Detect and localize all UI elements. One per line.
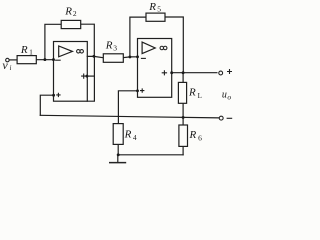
svg-text:4: 4 bbox=[133, 133, 137, 142]
svg-text:R: R bbox=[189, 129, 197, 141]
svg-text:6: 6 bbox=[198, 134, 202, 143]
svg-text:i: i bbox=[10, 64, 12, 72]
svg-text:2: 2 bbox=[73, 9, 77, 18]
svg-text:R: R bbox=[124, 129, 132, 141]
svg-text:R: R bbox=[148, 1, 156, 13]
svg-text:R: R bbox=[64, 6, 72, 18]
svg-text:o: o bbox=[227, 93, 231, 102]
svg-text:R: R bbox=[105, 39, 113, 51]
svg-text:5: 5 bbox=[157, 5, 161, 14]
svg-text:1: 1 bbox=[29, 48, 33, 57]
svg-text:R: R bbox=[20, 44, 28, 56]
svg-text:R: R bbox=[188, 87, 196, 99]
svg-text:3: 3 bbox=[113, 44, 117, 53]
svg-text:L: L bbox=[198, 92, 202, 100]
svg-text:v: v bbox=[2, 58, 8, 72]
svg-text:u: u bbox=[222, 89, 227, 100]
